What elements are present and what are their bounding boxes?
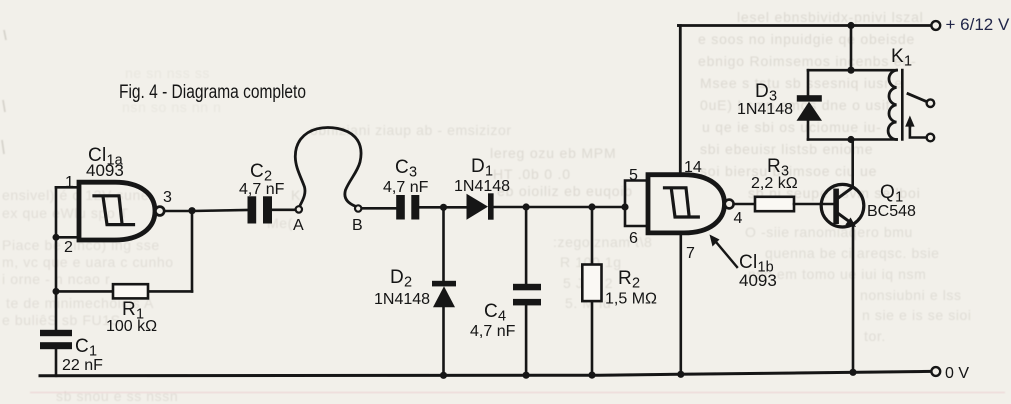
node junction rail C4 xyxy=(523,372,530,379)
svg-text:0 V: 0 V xyxy=(945,365,969,382)
gate CI1b body xyxy=(648,175,725,233)
svg-text:e soos no inpuidgie qe obeisde: e soos no inpuidgie qe obeisde xyxy=(698,31,915,47)
capacitor C3 xyxy=(396,195,419,220)
node junction CI1b input bracket xyxy=(621,203,628,210)
BLEEDTHROUGH xyxy=(0,0,1,1)
relay actuation arrow xyxy=(905,116,926,138)
node junction rail pin7 xyxy=(677,371,684,378)
relay NO contact terminal xyxy=(927,99,935,107)
diode D2 xyxy=(432,281,456,308)
svg-text:4093: 4093 xyxy=(739,271,777,290)
wire C4 branch vertical xyxy=(525,207,528,375)
sensor loop wire A to B xyxy=(295,128,361,207)
wire rail to relay top xyxy=(850,26,853,71)
svg-text:100 kΩ: 100 kΩ xyxy=(106,318,157,335)
wire pin14 to top rail xyxy=(679,26,681,175)
wire collector vertical xyxy=(851,140,854,188)
gate CI1a output bubble xyxy=(155,207,164,216)
svg-text:2,2 kΩ: 2,2 kΩ xyxy=(751,175,798,192)
svg-text:+ 6/12 V: + 6/12 V xyxy=(946,15,1010,34)
svg-text:4: 4 xyxy=(734,210,743,227)
transistor Q1 collector stroke xyxy=(839,187,853,197)
diode D1 xyxy=(467,193,494,220)
wire CI1a output to C2 xyxy=(164,210,248,211)
svg-text:K: K xyxy=(291,187,301,203)
svg-text:BC548: BC548 xyxy=(867,203,916,220)
resistor R1 xyxy=(113,284,148,298)
wire CI1b input bracket xyxy=(625,181,648,227)
terminal +6/12V xyxy=(931,21,940,30)
gate CI1a hysteresis glyph xyxy=(94,196,134,225)
node junction rail D2 xyxy=(440,372,447,379)
transistor Q1 emitter stroke xyxy=(839,214,851,223)
svg-text:Fig. 4 - Diagrama completo: Fig. 4 - Diagrama completo xyxy=(119,82,306,103)
wire C2 to node A xyxy=(272,209,295,212)
wire feedback vertical to R1 xyxy=(191,211,194,292)
node junction C4 branch xyxy=(523,203,530,210)
node junction R1 left xyxy=(53,288,60,295)
node A terminal xyxy=(296,206,302,212)
svg-text:4,7 nF: 4,7 nF xyxy=(470,323,516,340)
svg-text:4,7 nF: 4,7 nF xyxy=(239,181,285,198)
svg-text:4,7 nF: 4,7 nF xyxy=(383,179,429,196)
wire D2 branch vertical xyxy=(442,207,445,375)
svg-text:n sie e is se sioi: n sie e is se sioi xyxy=(862,307,972,323)
wire R1 right segment xyxy=(148,290,192,293)
node junction relay top xyxy=(847,67,854,74)
wire C1 bottom to rail xyxy=(55,349,58,376)
top supply rail xyxy=(679,24,932,27)
relay common terminal xyxy=(927,134,935,142)
svg-text:1,5 MΩ: 1,5 MΩ xyxy=(605,291,657,308)
node junction rail emitter xyxy=(849,369,856,376)
wire emitter vertical xyxy=(852,226,855,372)
wire R1 left segment xyxy=(56,290,113,293)
gate CI1b hysteresis glyph xyxy=(665,188,699,217)
gate CI1a body xyxy=(79,182,155,240)
gate CI1b output bubble xyxy=(725,200,734,209)
svg-text:lesel ebnsbividx-pnivi lszal: lesel ebnsbividx-pnivi lszal xyxy=(737,9,924,25)
svg-text:7: 7 xyxy=(686,245,695,262)
svg-text:sbi ebeuisr listsb eniome: sbi ebeuisr listsb eniome xyxy=(700,141,873,157)
svg-text:sb snou e ss nssn: sb snou e ss nssn xyxy=(56,388,178,404)
transistor Q1 base bar xyxy=(833,189,839,224)
svg-text:ne sn nss ss: ne sn nss ss xyxy=(125,65,210,81)
svg-text:ensivel) é o 12V sune: ensivel) é o 12V sune xyxy=(2,187,149,203)
wire pin1 CI1a xyxy=(56,186,79,189)
svg-text:ex que eWlu spo T: ex que eWlu spo T xyxy=(2,205,129,221)
node junction pin2 xyxy=(53,234,60,241)
svg-text:A: A xyxy=(293,217,304,234)
svg-text:B: B xyxy=(352,217,363,234)
svg-text:14: 14 xyxy=(684,159,702,176)
svg-text:nonsiubni e lss: nonsiubni e lss xyxy=(860,287,962,303)
relay K1 core bar xyxy=(901,70,904,140)
node B terminal xyxy=(355,205,361,211)
wire CI1b output to R3 xyxy=(734,203,755,206)
transistor Q1 emitter arrow xyxy=(845,218,856,228)
wire relay top horizontal xyxy=(808,69,897,72)
capacitor C2 xyxy=(248,196,273,223)
resistor R3 xyxy=(755,197,794,211)
svg-text:tor.: tor. xyxy=(864,328,886,344)
svg-text:ebnigo Roimsemos incenbs eu-: ebnigo Roimsemos incenbs eu- xyxy=(698,53,917,69)
svg-text:3: 3 xyxy=(163,189,172,206)
relay switch arm xyxy=(908,94,926,102)
svg-text:4093: 4093 xyxy=(86,161,124,180)
svg-text:1N4148: 1N4148 xyxy=(737,101,793,118)
node junction rail/relay xyxy=(847,22,854,29)
wire D3 vertical top xyxy=(807,70,810,139)
svg-text:2: 2 xyxy=(64,239,73,256)
resistor R2 xyxy=(582,265,601,302)
terminal 0V xyxy=(931,367,940,376)
svg-text:lereg ozu eb MPM: lereg ozu eb MPM xyxy=(490,145,616,161)
svg-text:22 nF: 22 nF xyxy=(62,357,103,374)
node junction pin3/R1 xyxy=(188,207,195,214)
svg-text:6: 6 xyxy=(629,230,638,247)
node junction relay bottom xyxy=(847,136,854,143)
svg-text:u qe ie sbi os uciomue iu-: u qe ie sbi os uciomue iu- xyxy=(702,119,882,135)
wire C3 to D1 xyxy=(419,206,466,209)
wire pin2 CI1a xyxy=(56,236,79,239)
svg-text:eb oioiliz eb euqoib: eb oioiliz eb euqoib xyxy=(497,183,633,199)
node junction rail R2 xyxy=(588,372,595,379)
svg-text:O -siie ranomiaqero bmu: O -siie ranomiaqero bmu xyxy=(745,224,913,240)
svg-text:Msee s tstu sb ssesniq iusr e: Msee s tstu sb ssesniq iusr e xyxy=(700,75,903,91)
wire relay bottom horizontal xyxy=(808,138,897,141)
wire left vertical input bus xyxy=(55,187,58,329)
node junction R2 branch xyxy=(588,203,595,210)
wire pin7 to bottom rail xyxy=(679,233,682,374)
svg-text:5: 5 xyxy=(629,167,638,184)
svg-text:1: 1 xyxy=(65,174,74,191)
wire D1 to CI1b input xyxy=(494,206,625,209)
svg-text:1N4148: 1N4148 xyxy=(374,291,430,308)
bottom rail 0V xyxy=(40,371,931,375)
node junction D2 branch xyxy=(440,204,447,211)
pointer arrow to CI1b xyxy=(710,235,738,268)
relay K1 coil xyxy=(888,70,896,139)
diode D3 xyxy=(797,95,823,121)
transistor Q1 circle xyxy=(821,184,864,227)
wire R3 to Q1 base xyxy=(794,203,834,206)
svg-text:1N4148: 1N4148 xyxy=(454,178,510,195)
capacitor C1 xyxy=(40,330,72,349)
capacitor C4 xyxy=(513,284,541,306)
svg-text:e buliêS sb FU1S: e buliêS sb FU1S xyxy=(2,312,121,328)
wire R2 branch vertical xyxy=(591,207,594,375)
wire B to C3 xyxy=(362,207,396,210)
svg-text:m, vc que e uara c cunho: m, vc que e uara c cunho xyxy=(2,254,174,270)
